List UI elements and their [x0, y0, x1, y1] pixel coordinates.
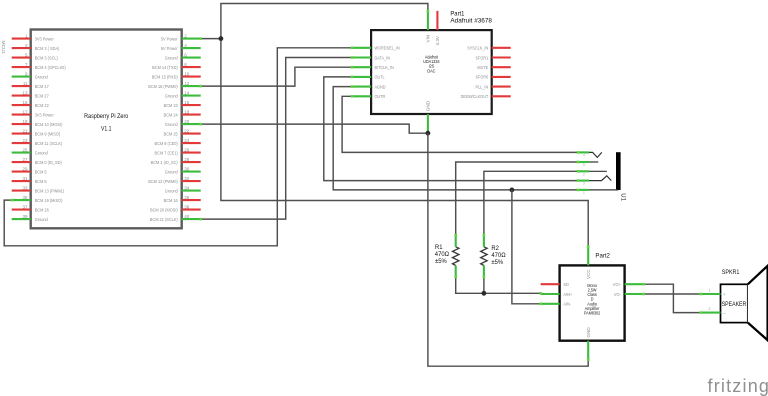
svg-text:Ground: Ground	[165, 169, 179, 174]
svg-text:BCM 27: BCM 27	[35, 93, 50, 98]
pin 5 BCM 3 (SCL) (MCU1)	[12, 57, 31, 59]
svg-text:BCM 16: BCM 16	[164, 198, 179, 203]
svg-text:10: 10	[184, 71, 190, 76]
svg-text:BCM 15 (RXD): BCM 15 (RXD)	[152, 74, 178, 79]
wire AGND net to Part2 AIN-	[512, 190, 541, 304]
svg-text:SFOR0: SFOR0	[475, 74, 488, 79]
svg-text:BITCLK_IN: BITCLK_IN	[375, 65, 394, 70]
part label Part2	[595, 252, 610, 259]
svg-text:14: 14	[184, 90, 190, 95]
wire ground: MCU1 pin 20 to GND node of Part1	[201, 124, 428, 133]
wire VO+ of Part2 to speaker pin 2	[644, 284, 701, 312]
pin 3.3V (Part1)	[436, 11, 438, 30]
svg-text:Raspberry Pi Zero: Raspberry Pi Zero	[84, 114, 128, 120]
pin SD (Part2)	[541, 283, 560, 285]
svg-text:19: 19	[22, 119, 28, 124]
svg-text:SPEAKER: SPEAKER	[722, 302, 747, 308]
svg-text:35: 35	[22, 195, 28, 200]
svg-text:18: 18	[184, 109, 190, 114]
svg-text:34: 34	[184, 185, 190, 190]
svg-text:BCM 3 (SCL): BCM 3 (SCL)	[35, 55, 59, 60]
wire jack pin 5 to resistor R1 top	[456, 162, 578, 235]
svg-text:Ground: Ground	[165, 93, 179, 98]
svg-text:BCM 21 (SCLK): BCM 21 (SCLK)	[150, 217, 178, 222]
pin 28 BCM 1 (ID_SC) (MCU1)	[182, 161, 201, 163]
svg-text:DATA_IN: DATA_IN	[375, 55, 391, 60]
pin 31 BCM 6 (MCU1)	[12, 180, 31, 182]
svg-text:GND: GND	[586, 327, 591, 338]
pin SFOR0 (Part1)	[492, 76, 511, 78]
node GND junction below Part1	[426, 131, 431, 136]
wire WORDSEL: MCU1 pin 35 BCM19 to Part1 WORDSEL_IN	[4, 48, 352, 246]
svg-text:2: 2	[583, 172, 585, 176]
pin 25 Ground (MCU1)	[12, 152, 31, 154]
svg-text:4: 4	[583, 153, 585, 157]
pin AIN+ (Part2)	[541, 293, 560, 295]
svg-text:24: 24	[184, 138, 190, 143]
svg-text:Ground: Ground	[165, 55, 179, 60]
pin 37 BCM 26 (MCU1)	[12, 209, 31, 211]
svg-text:BCM 22: BCM 22	[35, 103, 50, 108]
svg-text:23: 23	[22, 138, 28, 143]
jack pin 4 tip switch contact	[578, 151, 589, 153]
pin DATA_IN (Part1)	[352, 56, 371, 58]
svg-text:BCM 20 (MOSI): BCM 20 (MOSI)	[150, 207, 178, 212]
svg-text:MUTE: MUTE	[477, 65, 488, 70]
svg-text:1: 1	[709, 289, 711, 293]
pin AIN- (Part2)	[541, 303, 560, 305]
svg-text:BCM 4 (GPCLK0): BCM 4 (GPCLK0)	[35, 65, 66, 70]
svg-text:13: 13	[22, 90, 28, 95]
svg-text:Part2: Part2	[595, 252, 610, 259]
svg-text:BCM 7 (CE1): BCM 7 (CE1)	[155, 150, 179, 155]
wire BITCLK: MCU1 pin 12 BCM18 to Part1 BITCLK_IN	[201, 67, 352, 86]
svg-text:R1: R1	[435, 245, 443, 251]
svg-text:36: 36	[184, 195, 190, 200]
pin SFOR1 (Part1)	[492, 56, 511, 58]
svg-text:Adafruit #3678: Adafruit #3678	[450, 18, 492, 25]
svg-text:Ground: Ground	[35, 150, 49, 155]
svg-text:3: 3	[583, 182, 585, 186]
svg-text:fritzing: fritzing	[708, 376, 768, 396]
svg-text:470Ω: 470Ω	[435, 252, 450, 258]
svg-text:V1.1: V1.1	[101, 126, 111, 133]
wire R1 bottom to Part2 AIN+	[456, 277, 541, 293]
pin 10 BCM 15 (RXD) (MCU1)	[182, 76, 201, 78]
pin 24 BCM 8 (CE0) (MCU1)	[182, 142, 201, 144]
svg-text:33: 33	[22, 185, 28, 190]
node R2 junction on AIN+ net	[482, 291, 487, 296]
wire DATA: MCU1 pin 40 BCM21 to Part1 DATA_IN	[201, 58, 352, 220]
pin OUTL (Part1)	[352, 76, 371, 78]
pin 33 BCM 13 (PWM1) (MCU1)	[12, 190, 31, 192]
value label R1 470ohm 5%	[435, 245, 443, 251]
svg-text:1: 1	[583, 191, 585, 195]
pin WORDSEL_IN (Part1)	[352, 47, 371, 49]
svg-text:GND: GND	[426, 100, 431, 111]
svg-text:BCM 1 (ID_SC): BCM 1 (ID_SC)	[151, 160, 179, 165]
wire 5V: junction up and over to Part1 VIN	[221, 4, 428, 39]
microcontroller MCU1 Raspberry Pi Zero body	[31, 30, 182, 229]
svg-text:40: 40	[184, 214, 190, 219]
svg-text:AIN-: AIN-	[563, 301, 571, 306]
svg-text:22: 22	[184, 128, 190, 133]
svg-text:BCM 14 (TXD): BCM 14 (TXD)	[152, 65, 178, 70]
svg-text:VCC: VCC	[586, 269, 591, 279]
svg-text:37: 37	[22, 204, 28, 209]
wire endpoint markers (green)	[10, 10, 702, 361]
pin 7 BCM 4 (GPCLK0) (MCU1)	[12, 66, 31, 68]
svg-text:BCM 6: BCM 6	[35, 179, 47, 184]
pin 40 BCM 21 (SCLK) (MCU1)	[182, 218, 201, 220]
pin AGND (Part1)	[352, 86, 371, 88]
svg-text:Ground: Ground	[165, 122, 179, 127]
svg-text:Ground: Ground	[165, 188, 179, 193]
pin 23 BCM 11 (SCLK) (MCU1)	[12, 142, 31, 144]
svg-text:16: 16	[184, 100, 190, 105]
pin OUTR (Part1)	[352, 95, 371, 97]
svg-text:12: 12	[184, 81, 190, 86]
svg-text:SFOR1: SFOR1	[475, 55, 488, 60]
node AGND junction to AIN-	[510, 188, 515, 193]
pin 2 5V Power (MCU1)	[182, 38, 201, 40]
svg-text:5: 5	[583, 163, 585, 167]
svg-text:VO+: VO+	[613, 282, 621, 287]
jack pin 3 tip contact	[578, 180, 589, 182]
svg-text:+: +	[723, 292, 726, 297]
pin SYSCLK_IN (Part1)	[492, 47, 511, 49]
pin 4 5V Power (MCU1)	[182, 47, 201, 49]
svg-text:R2: R2	[491, 246, 499, 252]
pin GND (Part2)	[587, 341, 589, 360]
wire 5V: MCU1 pin 2 to junction	[201, 38, 221, 40]
svg-text:25: 25	[22, 147, 28, 152]
pin 3 BCM 2 ( SDA) (MCU1)	[12, 47, 31, 49]
IC Part1 Adafruit UDA1334 I2S DAC body	[371, 30, 492, 114]
svg-text:VO-: VO-	[614, 291, 621, 296]
svg-text:3V3 Power: 3V3 Power	[35, 112, 55, 117]
wire AGND: Part1 AGND to jack sleeve pin 1	[333, 87, 578, 190]
svg-text:OUTL: OUTL	[375, 74, 386, 79]
svg-text:Ground: Ground	[35, 217, 49, 222]
wire 5V: junction down to VCC of Part2	[221, 39, 588, 247]
wire ground: GND node down and right to Part2 GND	[428, 133, 588, 366]
svg-text:39: 39	[22, 214, 28, 219]
svg-text:±5%: ±5%	[491, 260, 503, 266]
svg-text:BCM 11 (SCLK): BCM 11 (SCLK)	[35, 141, 63, 146]
pin 8 BCM 14 (TXD) (MCU1)	[182, 66, 201, 68]
jack pin 1 sleeve	[578, 189, 589, 191]
svg-text:BCM 10 (MOSI): BCM 10 (MOSI)	[35, 122, 63, 127]
svg-text:DEEM/CLKOUT: DEEM/CLKOUT	[461, 94, 489, 99]
pin 18 BCM 24 (MCU1)	[182, 114, 201, 116]
pin 32 BCM 12 (PWM0) (MCU1)	[182, 180, 201, 182]
pin 20 Ground (MCU1)	[182, 123, 201, 125]
svg-text:20: 20	[184, 119, 190, 124]
pin 13 BCM 27 (MCU1)	[12, 95, 31, 97]
pin 36 BCM 16 (MCU1)	[182, 199, 201, 201]
svg-text:BCM 19 (MISO): BCM 19 (MISO)	[35, 198, 63, 203]
pin BITCLK_IN (Part1)	[352, 66, 371, 68]
speaker pin 2 -	[701, 312, 721, 314]
pin 14 Ground (MCU1)	[182, 95, 201, 97]
svg-text:2: 2	[709, 307, 711, 311]
svg-text:PAM8302: PAM8302	[584, 310, 600, 315]
part label SPKR1	[722, 270, 740, 276]
svg-text:VIN: VIN	[426, 35, 431, 43]
svg-text:BCM 23: BCM 23	[164, 103, 179, 108]
wire R2 bottom joining AIN+ net	[483, 277, 485, 293]
IC Part2 PAM8302 audio amplifier body	[560, 265, 625, 340]
svg-text:BCM 12 (PWM0): BCM 12 (PWM0)	[148, 179, 178, 184]
svg-text:BCM 0 (ID_SD): BCM 0 (ID_SD)	[35, 160, 63, 165]
svg-text:21: 21	[22, 128, 28, 133]
pin MUTE (Part1)	[492, 66, 511, 68]
pin VCC (Part2)	[587, 246, 589, 265]
pin 1 3V3 Power (MCU1)	[12, 38, 31, 40]
svg-text:BCM 5: BCM 5	[35, 169, 47, 174]
svg-text:SPKR1: SPKR1	[722, 270, 740, 276]
speaker SPKR1 body	[721, 284, 748, 322]
svg-text:30: 30	[184, 166, 190, 171]
pin 11 BCM 17 (MCU1)	[12, 85, 31, 87]
wire OUTR: Part1 OUTR to jack pin 4	[342, 96, 578, 152]
pin PLL_IN (Part1)	[492, 86, 511, 88]
svg-text:Ground: Ground	[35, 74, 49, 79]
pin 17 3V3 Power (MCU1)	[12, 114, 31, 116]
svg-text:BCM 24: BCM 24	[164, 112, 179, 117]
pin VIN (Part1)	[427, 11, 429, 30]
audio jack U1 body (sleeve bar)	[616, 152, 621, 190]
jack pin 2 contact	[578, 170, 589, 172]
pin 39 Ground (MCU1)	[12, 218, 31, 220]
svg-text:BCM 9 (MISO): BCM 9 (MISO)	[35, 131, 61, 136]
svg-text:OUTR: OUTR	[375, 94, 386, 99]
svg-text:26: 26	[184, 147, 190, 152]
pin 19 BCM 10 (MOSI) (MCU1)	[12, 123, 31, 125]
pin 35 BCM 19 (MISO) (MCU1)	[12, 199, 31, 201]
pin 29 BCM 5 (MCU1)	[12, 171, 31, 173]
svg-text:11: 11	[23, 81, 28, 86]
pin 21 BCM 9 (MISO) (MCU1)	[12, 133, 31, 135]
pin 27 BCM 0 (ID_SD) (MCU1)	[12, 161, 31, 163]
svg-text:U1: U1	[619, 193, 625, 201]
part label Part1 Adafruit #3678	[450, 10, 465, 17]
svg-text:PLL_IN: PLL_IN	[475, 84, 488, 89]
svg-text:BCM 2 ( SDA): BCM 2 ( SDA)	[35, 46, 60, 51]
svg-text:28: 28	[184, 157, 190, 162]
svg-text:BCM 18 (PWM0): BCM 18 (PWM0)	[148, 84, 178, 89]
wire jack pin 2 to resistor R2 top	[484, 171, 578, 235]
svg-text:27: 27	[22, 157, 28, 162]
svg-text:17: 17	[22, 109, 28, 114]
svg-text:31: 31	[22, 176, 28, 181]
pin 16 BCM 23 (MCU1)	[182, 104, 201, 106]
pin DEEM/CLKOUT (Part1)	[492, 95, 511, 97]
svg-text:BCM 8 (CE0): BCM 8 (CE0)	[155, 141, 179, 146]
svg-text:SD: SD	[563, 282, 568, 287]
jack pin 5 contact	[578, 161, 589, 163]
pin 9 Ground (MCU1)	[12, 76, 31, 78]
svg-text:MCU1: MCU1	[0, 41, 6, 55]
svg-text:470Ω: 470Ω	[491, 253, 506, 259]
svg-text:BCM 17: BCM 17	[35, 84, 50, 89]
svg-text:5V Power: 5V Power	[161, 46, 178, 51]
svg-text:38: 38	[184, 204, 190, 209]
wire OUTL: Part1 OUTL to jack pin 3	[324, 77, 578, 181]
svg-text:32: 32	[184, 176, 190, 181]
svg-text:WORDSEL_IN: WORDSEL_IN	[375, 45, 400, 50]
pin 26 BCM 7 (CE1) (MCU1)	[182, 152, 201, 154]
pin 34 Ground (MCU1)	[182, 190, 201, 192]
svg-text:15: 15	[22, 100, 28, 105]
pin 38 BCM 20 (MOSI) (MCU1)	[182, 209, 201, 211]
pin VO- (Part2)	[625, 293, 644, 295]
pin 15 BCM 22 (MCU1)	[12, 104, 31, 106]
wire VO- of Part2 to speaker pin 1	[644, 293, 701, 295]
svg-text:BCM 25: BCM 25	[164, 131, 179, 136]
svg-text:3.3V: 3.3V	[435, 35, 440, 45]
svg-text:BCM 26: BCM 26	[35, 207, 50, 212]
svg-text:29: 29	[22, 166, 28, 171]
svg-text:AIN+: AIN+	[563, 291, 572, 296]
pin 22 BCM 25 (MCU1)	[182, 133, 201, 135]
pin GND (Part1)	[427, 114, 429, 133]
value label R2 470ohm 5%	[491, 246, 499, 252]
pin 30 Ground (MCU1)	[182, 171, 201, 173]
resistor R1 470 ohm	[453, 247, 459, 266]
svg-text:–: –	[723, 311, 726, 316]
svg-text:AGND: AGND	[375, 84, 386, 89]
pin 12 BCM 18 (PWM0) (MCU1)	[182, 85, 201, 87]
svg-text:±5%: ±5%	[435, 259, 447, 265]
pin 6 Ground (MCU1)	[182, 57, 201, 59]
pin VO+ (Part2)	[625, 283, 644, 285]
svg-text:DAC: DAC	[427, 68, 435, 73]
svg-text:BCM 13 (PWM1): BCM 13 (PWM1)	[35, 188, 65, 193]
node 5V junction at MCU1 pin 2	[219, 36, 224, 41]
svg-text:3V3 Power: 3V3 Power	[35, 36, 55, 41]
svg-text:SYSCLK_IN: SYSCLK_IN	[467, 45, 488, 50]
speaker pin 1 +	[701, 293, 721, 295]
svg-text:5V Power: 5V Power	[161, 36, 178, 41]
resistor R2 470 ohm	[481, 247, 487, 266]
